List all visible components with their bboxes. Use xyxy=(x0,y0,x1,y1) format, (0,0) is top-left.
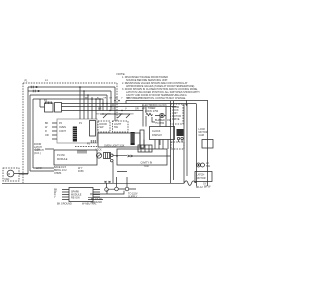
svg-text:TOD: TOD xyxy=(144,165,149,168)
svg-text:BR: BR xyxy=(98,108,102,111)
svg-text:CAM: CAM xyxy=(199,134,204,137)
svg-text:OVEN LIGHT 3.5K: OVEN LIGHT 3.5K xyxy=(104,145,125,148)
svg-text:FAN: FAN xyxy=(5,178,10,181)
svg-text:SW: SW xyxy=(114,126,119,129)
svg-text:GY: GY xyxy=(112,108,116,111)
svg-text:5 BK: 5 BK xyxy=(35,149,41,152)
svg-text:GROUND: GROUND xyxy=(91,201,102,204)
svg-text:BK: BK xyxy=(45,122,49,125)
svg-text:SUPPLY: SUPPLY xyxy=(128,196,138,199)
svg-text:DRIVE: DRIVE xyxy=(172,118,180,121)
svg-text:BK-12: BK-12 xyxy=(196,186,203,189)
svg-text:MODULE: MODULE xyxy=(57,158,68,161)
svg-text:SW: SW xyxy=(100,126,105,129)
svg-text:NO POWER CONDITION. CONTACTS M: NO POWER CONDITION. CONTACTS MAY CHANGE. xyxy=(126,97,186,100)
svg-text:LOCK: LOCK xyxy=(95,149,102,152)
svg-text:M: M xyxy=(8,173,10,176)
svg-text:MOTOR: MOTOR xyxy=(197,177,206,180)
svg-text:L2 W: L2 W xyxy=(36,167,42,170)
svg-text:RE-IGN: RE-IGN xyxy=(71,197,80,200)
svg-text:R BK: R BK xyxy=(78,170,84,173)
svg-text:CLOCK: CLOCK xyxy=(152,130,161,133)
svg-text:P1 DSI: P1 DSI xyxy=(57,154,65,157)
svg-text:SW: SW xyxy=(206,165,211,168)
svg-text:TN: TN xyxy=(139,98,142,100)
svg-text:R: R xyxy=(45,130,47,133)
svg-text:DISPLAY: DISPLAY xyxy=(152,134,162,137)
svg-text:BR W: BR W xyxy=(204,186,211,189)
svg-text:BR: BR xyxy=(127,98,130,100)
svg-text:OR: OR xyxy=(103,98,107,100)
svg-text:75 OHM: 75 OHM xyxy=(155,122,164,125)
svg-text:(N.O.): (N.O.) xyxy=(34,152,41,155)
svg-text:BU: BU xyxy=(115,98,118,100)
svg-text:OR: OR xyxy=(45,134,49,137)
svg-text:GY: GY xyxy=(109,98,113,100)
svg-text:OVEN: OVEN xyxy=(59,126,66,129)
svg-text:OHMS: OHMS xyxy=(54,172,62,175)
svg-text:BK GROUND: BK GROUND xyxy=(57,203,72,206)
svg-text:CONT: CONT xyxy=(59,130,66,133)
svg-text:OR: OR xyxy=(135,108,139,111)
svg-text:CONV 2750: CONV 2750 xyxy=(145,110,159,113)
